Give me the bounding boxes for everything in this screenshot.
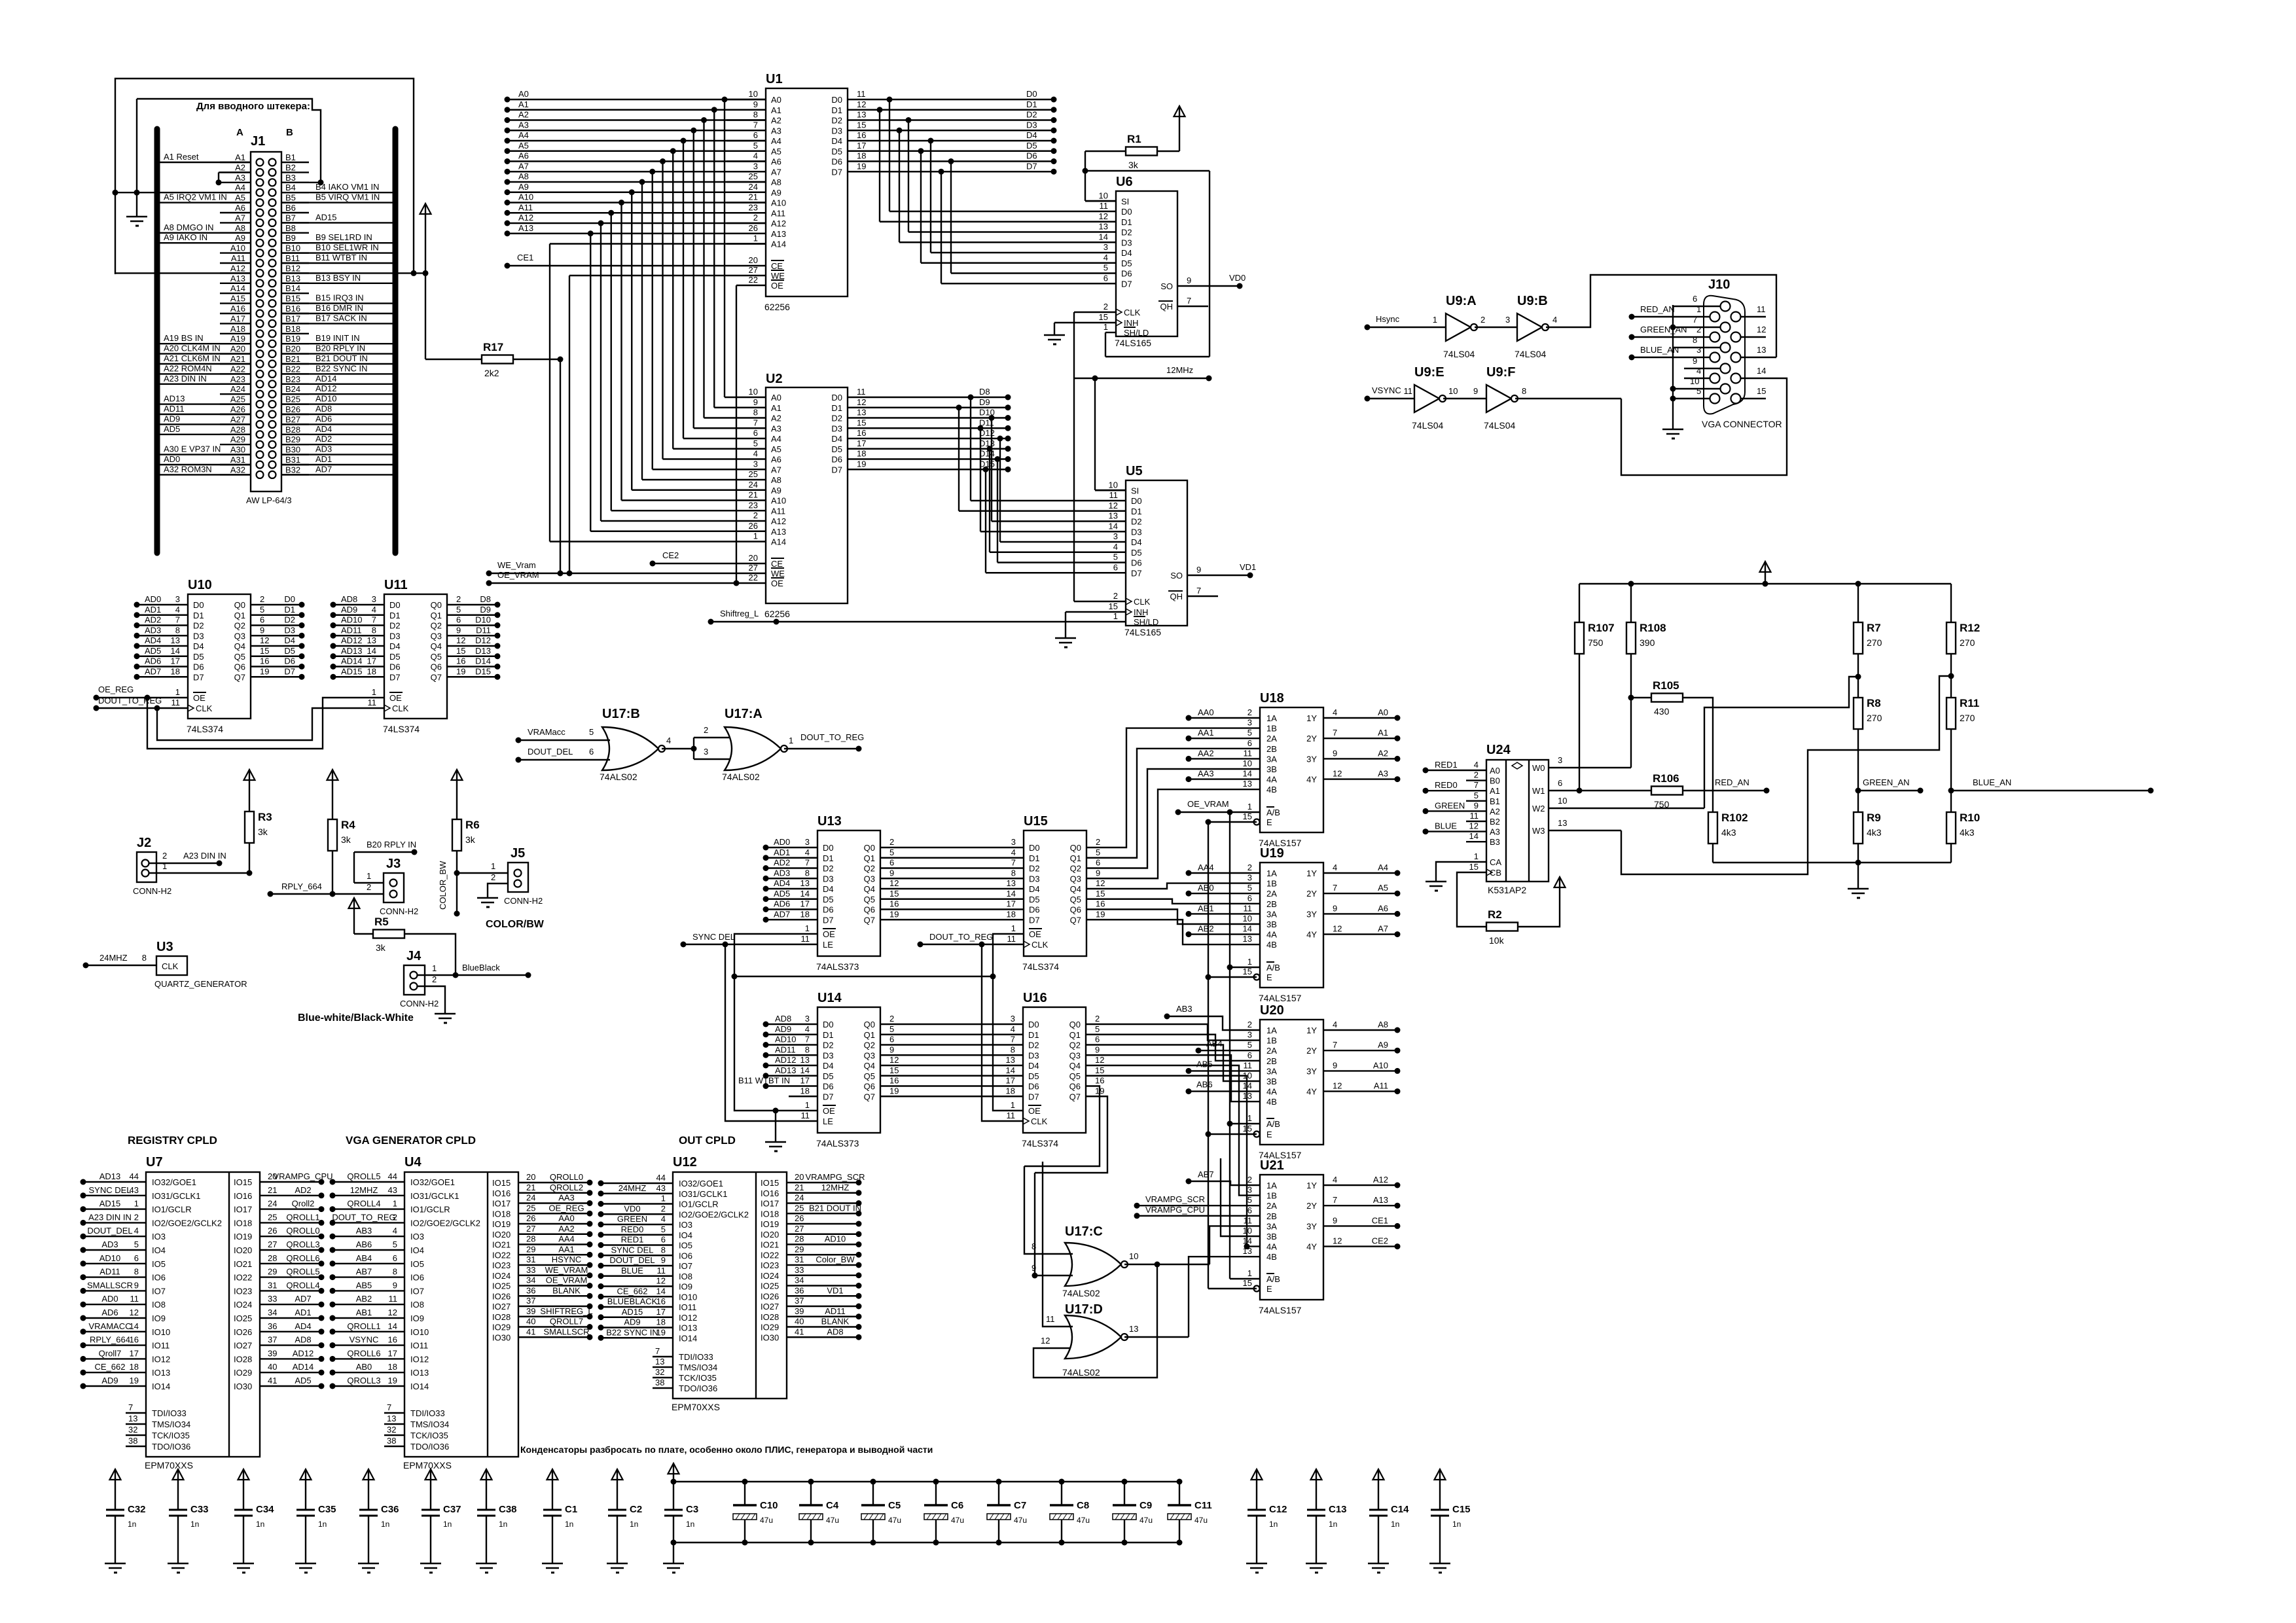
wire data D10 bus from U2 <box>874 417 1008 418</box>
svg-text:2A: 2A <box>1266 1201 1277 1211</box>
svg-text:21: 21 <box>268 1185 277 1195</box>
svg-text:AB1: AB1 <box>1198 903 1214 913</box>
node DOUT_TO_REG to U15 CLK <box>918 942 924 948</box>
resistor R1 3k <box>1126 147 1157 156</box>
svg-text:C6: C6 <box>951 1500 963 1511</box>
svg-text:29: 29 <box>268 1267 277 1277</box>
svg-text:Q2: Q2 <box>864 1041 875 1050</box>
svg-text:IO23: IO23 <box>234 1286 252 1296</box>
svg-text:C14: C14 <box>1391 1504 1409 1515</box>
svg-text:AD10: AD10 <box>99 1253 121 1263</box>
svg-text:A14: A14 <box>771 240 786 249</box>
svg-text:D1: D1 <box>1026 99 1037 109</box>
svg-text:18: 18 <box>857 449 866 459</box>
svg-text:1: 1 <box>805 1100 810 1110</box>
svg-text:AD7: AD7 <box>774 909 790 919</box>
svg-text:A10: A10 <box>771 198 786 208</box>
svg-text:3: 3 <box>1011 1014 1015 1024</box>
svg-text:D3: D3 <box>1121 238 1132 247</box>
svg-text:IO16: IO16 <box>761 1188 779 1198</box>
connector J5 CONN-H2 <box>508 863 528 892</box>
svg-text:A23: A23 <box>230 374 245 384</box>
svg-text:A10: A10 <box>230 243 245 253</box>
svg-text:A13: A13 <box>771 229 786 239</box>
svg-text:A7: A7 <box>1378 924 1388 934</box>
svg-text:A21 CLK6M IN: A21 CLK6M IN <box>164 353 221 363</box>
svg-text:A1: A1 <box>1490 786 1500 796</box>
svg-text:AD14: AD14 <box>341 656 363 666</box>
svg-text:A8 DMGO IN: A8 DMGO IN <box>164 223 214 232</box>
svg-text:A20: A20 <box>230 344 245 354</box>
wire J1 pin B32 net AD7 <box>281 474 393 475</box>
multiplexer U20 74ALS157 <box>1260 1020 1323 1145</box>
svg-text:D7: D7 <box>823 915 834 925</box>
svg-text:16: 16 <box>260 656 269 666</box>
svg-text:E: E <box>1266 1130 1272 1139</box>
svg-text:C3: C3 <box>686 1504 698 1515</box>
svg-text:B10 SEL1WR IN: B10 SEL1WR IN <box>315 243 379 253</box>
resistor R4 3k <box>332 770 333 792</box>
svg-text:14: 14 <box>1243 1081 1252 1091</box>
svg-text:15: 15 <box>889 889 899 899</box>
wire U17:C input 9 <box>1035 1173 1073 1275</box>
inverter U9:A 74LS04 <box>1446 313 1471 341</box>
svg-text:QH: QH <box>1170 592 1183 601</box>
capacitor C34 1n <box>243 1470 244 1491</box>
svg-text:40: 40 <box>268 1362 277 1372</box>
svg-text:A2: A2 <box>235 162 245 172</box>
svg-text:D2: D2 <box>823 1041 834 1050</box>
svg-text:24: 24 <box>749 480 758 490</box>
svg-text:4k3: 4k3 <box>1867 827 1882 838</box>
latch U13 74ALS373 <box>817 830 880 956</box>
svg-text:A9 IAKO IN: A9 IAKO IN <box>164 232 207 242</box>
svg-text:D14: D14 <box>475 656 491 666</box>
svg-text:74LS04: 74LS04 <box>1515 349 1546 359</box>
svg-text:4k3: 4k3 <box>1960 827 1975 838</box>
svg-text:IO13: IO13 <box>410 1368 429 1378</box>
wire OE tie across <box>734 976 993 977</box>
svg-text:VD0: VD0 <box>624 1204 640 1213</box>
svg-text:A6: A6 <box>771 455 781 465</box>
svg-text:IO14: IO14 <box>410 1382 429 1391</box>
svg-text:3: 3 <box>1505 315 1510 325</box>
svg-text:AB2: AB2 <box>1198 924 1214 934</box>
wire data D14 bus from U2 <box>874 458 1008 459</box>
svg-text:OE: OE <box>389 693 402 703</box>
wire address A10 bus to U1 and U2 <box>507 202 766 203</box>
wire J1 pin B4 net B4 IAKO VM1 IN <box>281 192 393 193</box>
latch U16 74LS374 <box>1023 1007 1086 1133</box>
svg-text:Q3: Q3 <box>1069 1050 1081 1060</box>
svg-text:B: B <box>286 127 293 138</box>
svg-text:1Y: 1Y <box>1306 868 1317 878</box>
svg-text:OE: OE <box>823 929 835 939</box>
svg-text:2A: 2A <box>1266 734 1277 743</box>
svg-text:4: 4 <box>1552 315 1557 325</box>
svg-text:10: 10 <box>1109 480 1118 490</box>
svg-text:6: 6 <box>1096 858 1100 868</box>
svg-text:D6: D6 <box>389 662 401 672</box>
svg-text:3: 3 <box>372 594 376 604</box>
wire R105 to R102 <box>1683 698 1713 812</box>
node VRAMPG_SCR to U21 <box>1134 1203 1140 1209</box>
svg-text:B21 DOUT IN: B21 DOUT IN <box>315 353 368 363</box>
wire J10 ground bus <box>1672 305 1674 429</box>
svg-text:IO27: IO27 <box>492 1302 511 1311</box>
svg-text:2: 2 <box>889 1014 894 1024</box>
svg-text:9: 9 <box>661 1255 666 1265</box>
svg-text:IO5: IO5 <box>679 1241 692 1251</box>
svg-text:AD11: AD11 <box>164 404 185 414</box>
svg-text:16: 16 <box>889 1076 899 1086</box>
svg-text:2: 2 <box>432 974 437 984</box>
svg-text:25: 25 <box>268 1212 277 1222</box>
wire J1 pin A19 net A19 BS IN <box>160 343 251 344</box>
svg-text:6: 6 <box>753 130 758 140</box>
node WE_Vram <box>486 571 492 577</box>
svg-text:74ALS02: 74ALS02 <box>1062 1288 1100 1298</box>
svg-text:4: 4 <box>1333 1175 1337 1185</box>
svg-text:OE: OE <box>823 1106 835 1116</box>
svg-text:D6: D6 <box>1028 1082 1039 1092</box>
svg-text:DOUT_TO_REG: DOUT_TO_REG <box>800 732 864 742</box>
wire address A8 bus to U1 and U2 <box>507 181 766 183</box>
svg-text:AD3: AD3 <box>145 625 161 635</box>
svg-text:17: 17 <box>656 1307 666 1317</box>
sram U2 62256 <box>766 387 848 603</box>
svg-text:AD9: AD9 <box>164 414 180 423</box>
svg-text:6: 6 <box>393 1253 397 1263</box>
wire data D13 bus from U2 <box>874 448 1008 450</box>
svg-text:19: 19 <box>857 459 866 469</box>
svg-text:C7: C7 <box>1014 1500 1026 1511</box>
svg-text:18: 18 <box>800 1086 810 1096</box>
svg-text:5: 5 <box>1247 728 1252 738</box>
svg-text:39: 39 <box>795 1306 804 1316</box>
svg-text:4Y: 4Y <box>1306 1242 1317 1252</box>
svg-text:19: 19 <box>1096 909 1105 919</box>
svg-text:5: 5 <box>456 605 461 615</box>
svg-text:AB4: AB4 <box>356 1253 372 1263</box>
svg-text:B18: B18 <box>285 324 300 334</box>
svg-text:17: 17 <box>388 1348 397 1358</box>
svg-text:34: 34 <box>795 1275 804 1285</box>
svg-text:IO20: IO20 <box>492 1230 511 1240</box>
node U21 4A junction <box>1244 1243 1250 1249</box>
svg-text:AD7: AD7 <box>145 666 161 676</box>
svg-text:B11 WTBT IN: B11 WTBT IN <box>315 253 367 262</box>
svg-text:14: 14 <box>656 1286 666 1296</box>
svg-text:B27: B27 <box>285 414 300 424</box>
wire D8 to U5 input <box>970 397 971 501</box>
svg-text:6: 6 <box>1103 273 1108 283</box>
node BLUE to U24 <box>1423 829 1429 834</box>
svg-text:A22: A22 <box>230 364 245 374</box>
wire J10 pin 12 <box>1741 336 1766 338</box>
svg-text:IO10: IO10 <box>410 1327 429 1337</box>
wire J1 pin B16 net B16 DMR IN <box>281 313 393 314</box>
svg-text:AD12: AD12 <box>315 383 337 393</box>
wire J10 pin 8 <box>1673 347 1720 348</box>
svg-text:E: E <box>1266 972 1272 982</box>
svg-text:4: 4 <box>1103 253 1108 262</box>
power arrow at rail <box>1765 562 1766 584</box>
svg-text:C34: C34 <box>256 1504 274 1515</box>
svg-text:4: 4 <box>805 847 810 857</box>
svg-text:A1: A1 <box>771 105 781 115</box>
svg-text:10: 10 <box>1243 914 1252 923</box>
svg-text:J5: J5 <box>511 846 525 861</box>
svg-text:U6: U6 <box>1116 175 1133 189</box>
svg-text:11: 11 <box>1244 748 1253 758</box>
svg-text:4: 4 <box>1011 847 1016 857</box>
svg-text:IO29: IO29 <box>492 1323 511 1332</box>
wire J1 pin B9 net B9 SEL1RD IN <box>281 242 393 243</box>
svg-text:24MHZ: 24MHZ <box>99 953 128 963</box>
svg-text:D5: D5 <box>193 652 204 662</box>
svg-text:6: 6 <box>1558 778 1562 788</box>
svg-text:IO19: IO19 <box>492 1219 511 1229</box>
svg-text:LE: LE <box>823 940 833 950</box>
svg-text:9: 9 <box>1095 1044 1100 1054</box>
wire J1 pin A12 to loop <box>115 272 251 274</box>
svg-text:20: 20 <box>795 1172 804 1182</box>
svg-text:AD1: AD1 <box>295 1308 311 1317</box>
svg-text:AD2: AD2 <box>315 434 332 444</box>
svg-text:9: 9 <box>1333 1215 1337 1225</box>
wire J1 pin B13 net B13 BSY IN <box>281 283 393 284</box>
svg-text:RED0: RED0 <box>1435 780 1458 790</box>
svg-text:B8: B8 <box>285 223 296 233</box>
svg-text:D3: D3 <box>193 631 204 641</box>
ground under R9 <box>1857 863 1859 889</box>
svg-text:AD10: AD10 <box>825 1234 846 1244</box>
svg-text:A7: A7 <box>771 465 781 474</box>
svg-text:IO25: IO25 <box>761 1281 779 1291</box>
svg-text:Q7: Q7 <box>431 672 442 682</box>
resistor R3 3k <box>249 770 250 792</box>
wire J1 pin B10 net B10 SEL1WR IN <box>281 252 393 253</box>
svg-text:B28: B28 <box>285 425 300 435</box>
svg-text:OE_REG: OE_REG <box>98 685 134 694</box>
wire R1 to U6 SI <box>1085 171 1086 201</box>
svg-text:14: 14 <box>1099 232 1108 241</box>
svg-text:Q0: Q0 <box>431 600 442 610</box>
wire address A0 bus to U1 and U2 <box>507 99 766 100</box>
svg-text:14: 14 <box>1469 831 1479 841</box>
svg-text:11: 11 <box>1100 201 1109 211</box>
svg-text:A11: A11 <box>1374 1081 1388 1091</box>
svg-text:4: 4 <box>134 1226 139 1236</box>
svg-text:13: 13 <box>800 1055 810 1065</box>
svg-text:47u: 47u <box>1194 1516 1208 1525</box>
svg-text:11: 11 <box>1404 386 1413 396</box>
svg-text:A4: A4 <box>518 130 529 140</box>
wire J10 pin 6 <box>1673 306 1720 307</box>
svg-text:IO30: IO30 <box>492 1332 511 1342</box>
svg-text:2: 2 <box>1696 325 1701 334</box>
svg-text:47u: 47u <box>888 1516 901 1525</box>
svg-text:16: 16 <box>656 1296 666 1306</box>
svg-text:RED1: RED1 <box>1435 760 1458 770</box>
wire J10 pin 5 <box>1673 398 1710 399</box>
connector J3 CONN-H2 <box>384 873 404 902</box>
svg-text:D5: D5 <box>1029 895 1040 904</box>
svg-text:AD11: AD11 <box>825 1306 846 1316</box>
svg-text:C9: C9 <box>1139 1500 1152 1511</box>
svg-text:D6: D6 <box>1131 558 1142 568</box>
svg-text:C1: C1 <box>565 1504 577 1515</box>
svg-text:AD11: AD11 <box>99 1267 120 1277</box>
svg-text:A6: A6 <box>518 151 529 161</box>
svg-text:A19: A19 <box>230 334 245 344</box>
svg-text:1: 1 <box>1474 851 1479 861</box>
svg-text:1Y: 1Y <box>1306 1026 1317 1035</box>
latch U15 74LS374 <box>1024 830 1086 956</box>
svg-text:15: 15 <box>1243 811 1252 821</box>
svg-text:D5: D5 <box>284 646 295 656</box>
svg-text:U18: U18 <box>1260 691 1284 705</box>
svg-text:IO25: IO25 <box>234 1313 252 1323</box>
node CE1 to U1 <box>505 263 511 269</box>
svg-text:D5: D5 <box>823 895 834 904</box>
svg-text:U9:E: U9:E <box>1414 365 1444 380</box>
wire J1 pin A5 net A5 IRQ2 VM1 IN <box>160 202 251 203</box>
svg-text:A20 CLK4M IN: A20 CLK4M IN <box>164 344 221 353</box>
wire J1 pin A2-A3 tie <box>219 171 251 173</box>
svg-text:7: 7 <box>753 418 758 427</box>
wire address A7 bus to U1 and U2 <box>507 171 766 172</box>
svg-text:3: 3 <box>175 594 180 604</box>
svg-text:Q5: Q5 <box>1070 895 1081 904</box>
svg-text:R106: R106 <box>1653 772 1679 785</box>
svg-text:AA3: AA3 <box>1198 769 1214 779</box>
capacitor C14 1n <box>1378 1470 1379 1491</box>
svg-text:1B: 1B <box>1266 1191 1277 1201</box>
node GREEN_AN <box>1858 790 1920 791</box>
svg-text:A17: A17 <box>230 313 245 323</box>
svg-text:J3: J3 <box>386 857 401 871</box>
svg-text:W1: W1 <box>1532 786 1545 796</box>
svg-text:RED0: RED0 <box>621 1224 644 1234</box>
svg-text:18: 18 <box>1006 1086 1015 1096</box>
svg-text:16: 16 <box>889 899 899 909</box>
svg-text:IO3: IO3 <box>679 1220 692 1230</box>
svg-text:AD12: AD12 <box>293 1348 314 1358</box>
svg-text:10: 10 <box>1448 386 1458 396</box>
svg-text:IO21: IO21 <box>492 1240 511 1250</box>
wire electrolytic top rail <box>673 1481 1179 1482</box>
svg-text:AD12: AD12 <box>775 1055 797 1065</box>
svg-text:1n: 1n <box>318 1520 327 1529</box>
svg-text:2: 2 <box>1103 302 1108 312</box>
svg-text:74LS165: 74LS165 <box>1115 338 1151 348</box>
svg-text:IO31/GCLK1: IO31/GCLK1 <box>152 1191 200 1201</box>
svg-text:A3: A3 <box>771 423 781 433</box>
svg-text:R4: R4 <box>341 819 355 831</box>
svg-text:SMALLSCR: SMALLSCR <box>543 1327 589 1336</box>
svg-text:6: 6 <box>889 858 894 868</box>
wire U9:F output to J10 pin 14 <box>1515 398 1621 399</box>
svg-text:IO15: IO15 <box>234 1177 252 1187</box>
svg-text:D7: D7 <box>831 167 842 177</box>
svg-text:4: 4 <box>1696 366 1701 376</box>
svg-text:SYNC DEL: SYNC DEL <box>88 1185 131 1195</box>
resistor R5 3k <box>353 899 355 920</box>
svg-text:43: 43 <box>656 1183 666 1193</box>
svg-text:A3: A3 <box>1490 827 1500 837</box>
svg-text:3B: 3B <box>1266 1232 1277 1241</box>
svg-text:10k: 10k <box>1489 935 1505 946</box>
resistor R10 4k3 <box>1950 791 1952 812</box>
svg-text:D7: D7 <box>831 465 842 474</box>
svg-text:D2: D2 <box>1029 864 1040 874</box>
svg-text:17: 17 <box>1006 1076 1015 1086</box>
svg-text:7: 7 <box>805 1035 810 1044</box>
svg-text:AW LP-64/3: AW LP-64/3 <box>246 495 292 505</box>
svg-text:1n: 1n <box>381 1520 389 1529</box>
wire bottom rail <box>1713 862 1951 863</box>
svg-text:IO2/GOE2/GCLK2: IO2/GOE2/GCLK2 <box>679 1209 749 1219</box>
resistor R108 390 <box>1630 584 1632 622</box>
svg-text:D0: D0 <box>831 95 842 105</box>
node BLUE_AN <box>1951 790 2151 791</box>
wire E enable bus <box>1208 822 1209 1289</box>
svg-text:A21: A21 <box>230 354 245 364</box>
svg-text:4: 4 <box>175 605 180 615</box>
svg-text:13: 13 <box>387 1414 396 1423</box>
svg-text:K531AP2: K531AP2 <box>1488 885 1526 895</box>
svg-text:1n: 1n <box>1452 1520 1461 1529</box>
svg-text:A13: A13 <box>230 274 245 283</box>
svg-text:A12: A12 <box>518 213 533 223</box>
svg-text:B21: B21 <box>285 354 300 364</box>
wire U24 W0 <box>1549 767 1631 768</box>
svg-text:D6: D6 <box>1026 151 1037 161</box>
svg-text:18: 18 <box>130 1362 139 1372</box>
svg-text:R105: R105 <box>1653 679 1679 692</box>
svg-text:A6: A6 <box>1378 903 1388 913</box>
svg-text:15: 15 <box>456 646 465 656</box>
wire J1 pin A23 net A23 DIN IN <box>160 383 251 385</box>
svg-text:17: 17 <box>857 438 866 448</box>
svg-text:15: 15 <box>1757 386 1766 396</box>
svg-text:3k: 3k <box>465 834 476 845</box>
svg-text:B22: B22 <box>285 364 300 374</box>
wire J1 pin B15 net B15 IRQ3 IN <box>281 302 393 304</box>
capacitor C35 1n <box>305 1470 306 1491</box>
svg-text:IO11: IO11 <box>410 1341 428 1351</box>
node AA3 to U18 <box>1186 776 1192 782</box>
svg-text:AD5: AD5 <box>164 424 180 434</box>
svg-text:13: 13 <box>367 635 376 645</box>
svg-text:74LS04: 74LS04 <box>1484 420 1515 431</box>
svg-text:11: 11 <box>368 698 377 707</box>
svg-text:AD13: AD13 <box>99 1171 121 1181</box>
svg-text:U5: U5 <box>1126 464 1143 478</box>
svg-text:AD8: AD8 <box>341 594 357 604</box>
ground at U24 CA <box>1436 862 1486 882</box>
svg-text:1n: 1n <box>1391 1520 1399 1529</box>
wire U17:D input 11 <box>1043 1162 1073 1327</box>
capacitor C11 47u electrolytic <box>1179 1482 1180 1505</box>
svg-text:D1: D1 <box>389 611 401 620</box>
wire U24 W2 to green divider <box>1549 808 1704 809</box>
svg-text:3Y: 3Y <box>1306 909 1317 919</box>
svg-text:1: 1 <box>491 861 495 871</box>
svg-text:SH/LD: SH/LD <box>1134 617 1158 627</box>
